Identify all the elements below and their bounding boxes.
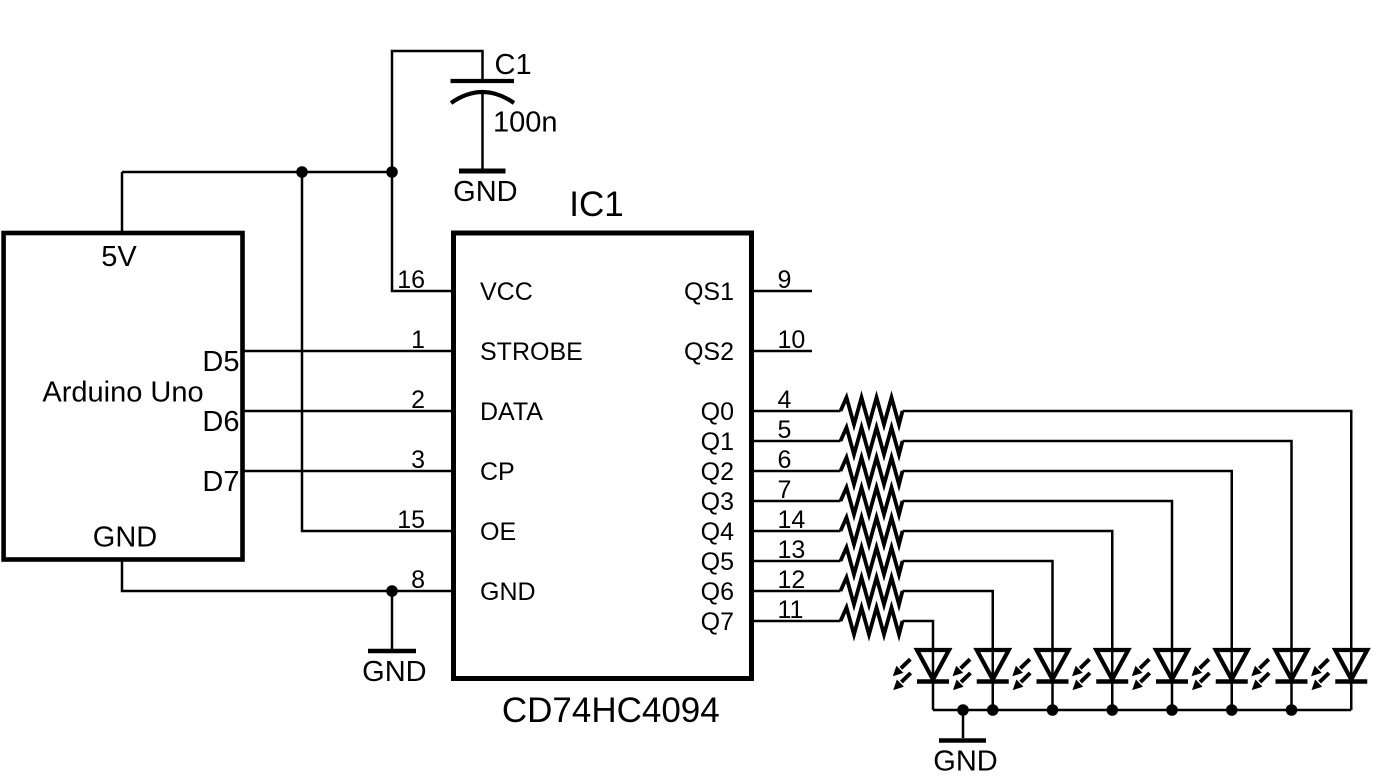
junction LED cathode on ground bus bbox=[1226, 704, 1238, 716]
LED D5 triangle (anode) bbox=[1156, 650, 1188, 680]
LED D6 cathode bar bbox=[1216, 679, 1248, 684]
wire resistor R5 to LED4 anode and cathode lead bbox=[903, 531, 1113, 710]
wire 5V to IC1 pin 16 VCC bbox=[392, 172, 452, 291]
LED D8 light arrow 2 bbox=[1320, 673, 1329, 682]
wire LED cathode ground bus bbox=[933, 709, 1351, 712]
ground symbol below LED bus bbox=[939, 738, 986, 743]
svg-text:Q0: Q0 bbox=[701, 398, 734, 426]
LED D2 cathode bar bbox=[977, 679, 1009, 684]
capacitor C1 bottom curved plate bbox=[451, 92, 514, 103]
LED D4 light arrow 1 bbox=[1080, 659, 1089, 668]
LED D7 triangle (anode) bbox=[1276, 650, 1308, 680]
svg-text:DATA: DATA bbox=[480, 398, 543, 426]
wire resistor R1 to LED8 anode and cathode lead bbox=[903, 411, 1352, 710]
resistor R2 on Q1 line bbox=[841, 428, 903, 455]
resistor R3 on Q2 line bbox=[841, 458, 903, 485]
capacitor C1 top plate bbox=[451, 79, 515, 83]
svg-text:GND: GND bbox=[453, 176, 517, 208]
resistor R4 on Q3 line bbox=[841, 488, 903, 515]
wire 5V rail horizontal bbox=[122, 171, 392, 174]
svg-text:GND: GND bbox=[362, 656, 426, 688]
junction LED cathode on ground bus bbox=[1286, 704, 1298, 716]
wire A1 GND to IC1 pin 8 GND bbox=[122, 558, 452, 591]
wire IC1 Q1 output to resistor R2 bbox=[753, 440, 841, 443]
resistor R1 on Q0 line bbox=[841, 398, 903, 425]
wire resistor R2 to LED7 anode and cathode lead bbox=[903, 441, 1292, 710]
svg-text:VCC: VCC bbox=[480, 278, 533, 306]
LED D8 cathode bar bbox=[1335, 679, 1367, 684]
IC IC1 CD74HC4094 body bbox=[454, 233, 752, 679]
wire resistor R8 to LED1 anode and cathode lead bbox=[903, 621, 934, 710]
svg-text:Q4: Q4 bbox=[701, 518, 734, 546]
LED D2 light arrow 1 bbox=[961, 659, 970, 668]
svg-text:OE: OE bbox=[480, 518, 516, 546]
junction LED cathode on ground bus bbox=[1166, 704, 1178, 716]
LED D2 light arrow 2 bbox=[961, 673, 970, 682]
svg-text:Q6: Q6 bbox=[701, 578, 734, 606]
svg-text:D7: D7 bbox=[202, 466, 239, 498]
wire IC1 Q3 output to resistor R4 bbox=[753, 500, 841, 503]
LED D1 light arrow 2 bbox=[901, 673, 910, 682]
svg-text:C1: C1 bbox=[495, 49, 532, 81]
svg-text:D5: D5 bbox=[202, 346, 239, 378]
svg-text:Q5: Q5 bbox=[701, 548, 734, 576]
wire IC1 Q4 output to resistor R5 bbox=[753, 530, 841, 533]
junction on 5V rail at VCC/C1 branch bbox=[386, 166, 398, 178]
junction LED cathode on ground bus bbox=[1106, 704, 1118, 716]
LED D5 cathode bar bbox=[1156, 679, 1188, 684]
ground symbol under C1 bbox=[459, 169, 506, 174]
wire IC1 Q6 output to resistor R7 bbox=[753, 590, 841, 593]
LED D6 light arrow 2 bbox=[1200, 673, 1209, 682]
LED D7 light arrow 2 bbox=[1260, 673, 1269, 682]
wire IC1 Q2 output to resistor R3 bbox=[753, 470, 841, 473]
resistor R6 on Q5 line bbox=[841, 548, 903, 575]
LED D1 triangle (anode) bbox=[917, 650, 949, 680]
svg-text:100n: 100n bbox=[493, 107, 558, 139]
LED D2 triangle (anode) bbox=[977, 650, 1009, 680]
svg-text:STROBE: STROBE bbox=[480, 338, 583, 366]
junction LED cathode on ground bus bbox=[1047, 704, 1059, 716]
junction LED cathode on ground bus bbox=[987, 704, 999, 716]
LED D8 light arrow 1 bbox=[1319, 659, 1328, 668]
LED D6 light arrow 1 bbox=[1200, 659, 1209, 668]
wire IC1 Q0 output to resistor R1 bbox=[753, 410, 841, 413]
LED D8 triangle (anode) bbox=[1335, 650, 1367, 680]
wire IC1 Q5 output to resistor R6 bbox=[753, 560, 841, 563]
LED D1 light arrow 1 bbox=[901, 659, 910, 668]
wire resistor R7 to LED2 anode and cathode lead bbox=[903, 591, 993, 710]
LED D3 cathode bar bbox=[1037, 679, 1069, 684]
resistor R7 on Q6 line bbox=[841, 578, 903, 605]
LED D1 cathode bar bbox=[917, 679, 949, 684]
wire C1 bottom lead to ground bbox=[481, 94, 484, 169]
LED D6 triangle (anode) bbox=[1216, 650, 1248, 680]
svg-text:QS2: QS2 bbox=[684, 338, 734, 366]
LED D3 light arrow 2 bbox=[1021, 673, 1030, 682]
wire D6 to IC1 pin 2 DATA bbox=[242, 410, 452, 413]
LED D3 triangle (anode) bbox=[1037, 650, 1069, 680]
ground symbol below IC1 pin 8 bbox=[368, 649, 416, 654]
svg-text:CP: CP bbox=[480, 458, 515, 486]
LED D7 cathode bar bbox=[1276, 679, 1308, 684]
wire resistor R3 to LED6 anode and cathode lead bbox=[903, 471, 1232, 710]
svg-text:Q2: Q2 bbox=[701, 458, 734, 486]
junction on GND wire at pin 8 ground branch bbox=[386, 585, 398, 597]
wire 5V rail up to capacitor C1 top bbox=[392, 51, 483, 172]
LED D3 light arrow 1 bbox=[1020, 659, 1029, 668]
svg-text:5V: 5V bbox=[101, 241, 137, 273]
resistor R5 on Q4 line bbox=[841, 518, 903, 545]
svg-text:QS1: QS1 bbox=[684, 278, 734, 306]
wire 5V from rail down to A1 5V pin bbox=[121, 172, 124, 231]
svg-text:D6: D6 bbox=[202, 406, 239, 438]
wire IC1 pin 10 QS2 stub bbox=[753, 350, 812, 353]
svg-text:Q7: Q7 bbox=[701, 608, 734, 636]
resistor R8 on Q7 line bbox=[841, 608, 903, 635]
LED D4 cathode bar bbox=[1096, 679, 1128, 684]
wire IC1 Q7 output to resistor R8 bbox=[753, 620, 841, 623]
LED D5 light arrow 1 bbox=[1140, 659, 1149, 668]
wire resistor R6 to LED3 anode and cathode lead bbox=[903, 561, 1053, 710]
svg-text:CD74HC4094: CD74HC4094 bbox=[502, 691, 720, 730]
svg-text:GND: GND bbox=[933, 746, 997, 778]
svg-text:Arduino Uno: Arduino Uno bbox=[42, 377, 203, 409]
wire D5 to IC1 pin 1 STROBE bbox=[242, 350, 452, 353]
wire IC1 pin 9 QS1 stub bbox=[753, 290, 812, 293]
LED D4 triangle (anode) bbox=[1096, 650, 1128, 680]
junction ground tap on bus bbox=[957, 704, 969, 716]
LED D7 light arrow 1 bbox=[1260, 659, 1269, 668]
wire 5V to IC1 pin 15 OE bbox=[302, 172, 452, 531]
wire D7 to IC1 pin 3 CP bbox=[242, 470, 452, 473]
module A1 Arduino Uno body bbox=[4, 233, 243, 560]
wire bus down to ground symbol bbox=[962, 710, 965, 738]
svg-text:IC1: IC1 bbox=[569, 185, 623, 224]
svg-text:GND: GND bbox=[93, 522, 157, 554]
svg-text:Q3: Q3 bbox=[701, 488, 734, 516]
svg-text:Q1: Q1 bbox=[701, 428, 734, 456]
LED D4 light arrow 2 bbox=[1081, 673, 1090, 682]
wire junction down to ground symbol bbox=[391, 591, 394, 649]
junction on 5V rail at OE branch bbox=[296, 166, 308, 178]
svg-text:GND: GND bbox=[480, 578, 536, 606]
LED D5 light arrow 2 bbox=[1140, 673, 1149, 682]
wire resistor R4 to LED5 anode and cathode lead bbox=[903, 501, 1173, 710]
